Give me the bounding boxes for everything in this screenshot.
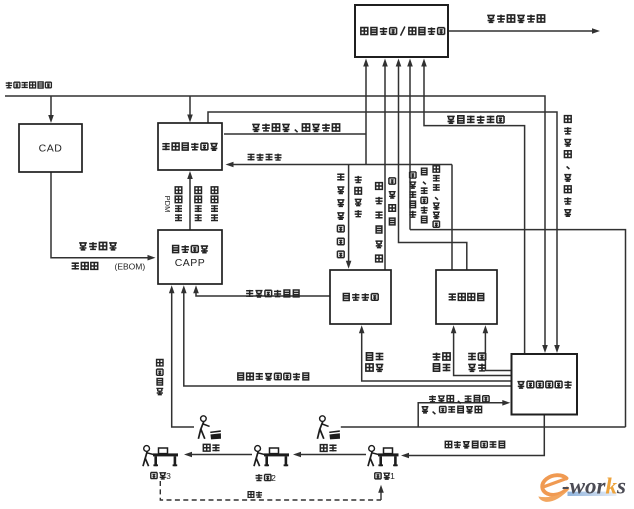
svg-text:1: 1 [390, 471, 395, 481]
svg-text:CAD: CAD [39, 143, 63, 155]
svg-text:(EBOM): (EBOM) [115, 262, 146, 272]
svg-text:PDM: PDM [163, 196, 172, 213]
svg-text:CAPP: CAPP [175, 257, 206, 269]
svg-text:3: 3 [166, 471, 171, 481]
svg-text:2: 2 [271, 473, 276, 483]
svg-text:-works: -works [562, 474, 626, 499]
